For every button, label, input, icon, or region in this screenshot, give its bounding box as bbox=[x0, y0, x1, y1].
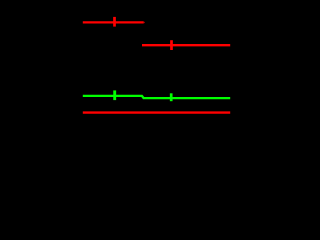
red errorbar segment 1 bbox=[83, 21, 144, 23]
red line 1 tapered end bbox=[144, 22, 145, 23]
green tick 1 bbox=[113, 90, 116, 100]
green stepped line bbox=[83, 96, 230, 98]
red tick 2 bbox=[170, 40, 173, 50]
red errorbar segment 2 bbox=[142, 44, 230, 46]
red tick 1 bbox=[113, 17, 116, 27]
red bottom line bbox=[83, 111, 230, 113]
green tick 2 bbox=[170, 93, 173, 101]
